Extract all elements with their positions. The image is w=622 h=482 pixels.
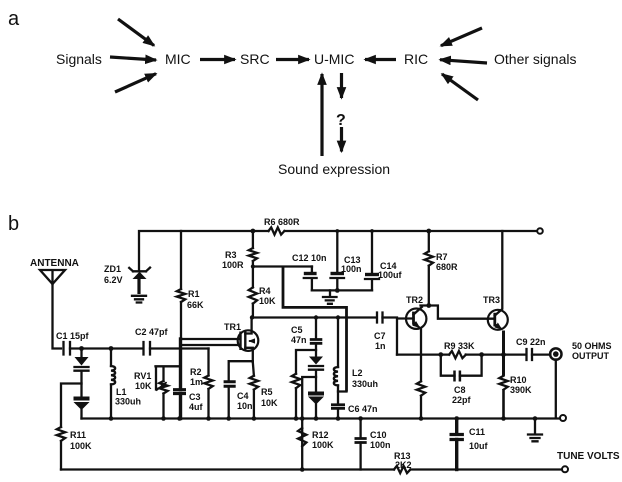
wire TR1 gate line 1 <box>181 338 241 340</box>
svg-text:R1: R1 <box>188 289 200 299</box>
wire thick gate node vertical <box>179 339 182 389</box>
wire arrow down question mark to Sound expression <box>340 127 343 152</box>
svg-text:10uf: 10uf <box>469 441 489 451</box>
wire varicap tap to R12 <box>302 377 316 470</box>
ground below decoupling caps <box>323 290 337 303</box>
resistor R1 <box>180 231 182 289</box>
node junction L1 top <box>109 346 114 351</box>
svg-text:6.2V: 6.2V <box>104 275 123 285</box>
svg-text:a: a <box>8 8 20 30</box>
wire arrow into MIC middle <box>110 57 156 60</box>
capacitor C2 <box>144 342 151 355</box>
svg-text:C5: C5 <box>291 325 303 335</box>
wire arrow MIC to SRC <box>200 58 235 61</box>
capacitor C9 <box>527 349 533 360</box>
svg-text:R6 680R: R6 680R <box>264 217 300 227</box>
capacitor C13 <box>336 231 338 272</box>
node junction C5 top <box>314 315 318 319</box>
inductor L1 <box>110 349 112 367</box>
svg-text:C6 47n: C6 47n <box>348 404 378 414</box>
antenna symbol <box>40 270 65 284</box>
wire arrow into RIC middle <box>440 60 487 63</box>
node rail junction R12 tap <box>300 416 305 421</box>
svg-text:L2: L2 <box>352 368 363 378</box>
wire TR3 emitter <box>502 331 505 376</box>
wire varicap chain lead <box>80 349 82 358</box>
resistor R3 <box>251 229 256 234</box>
wire TR2 emitter <box>420 330 422 382</box>
wire bias feed down to L2 bottom <box>283 267 347 392</box>
svg-text:C10: C10 <box>370 430 387 440</box>
svg-text:1m: 1m <box>190 377 203 387</box>
resistor R5 <box>253 362 254 376</box>
capacitor C7 <box>377 313 383 323</box>
transistor TR3 <box>488 310 508 330</box>
svg-text:66K: 66K <box>187 300 204 310</box>
svg-text:C3: C3 <box>189 392 201 402</box>
svg-text:ANTENNA: ANTENNA <box>30 258 79 269</box>
resistor TR2 emitter unlabeled <box>417 381 425 395</box>
svg-text:R10: R10 <box>510 375 527 385</box>
resistor R12 <box>298 428 306 446</box>
svg-text:100n: 100n <box>341 264 362 274</box>
svg-text:47n: 47n <box>291 335 307 345</box>
resistor R2 <box>207 349 209 376</box>
svg-text:SRC: SRC <box>240 51 270 67</box>
resistor R11 <box>57 427 65 441</box>
node rail junction R10 <box>501 416 506 421</box>
svg-text:100uf: 100uf <box>378 270 403 280</box>
wire ground rail <box>82 417 561 419</box>
wire arrow into RIC upper-right <box>441 28 482 46</box>
capacitor C12 <box>311 267 313 273</box>
wire top supply rail <box>139 231 537 270</box>
terminal tune volts circle <box>562 466 568 472</box>
svg-text:RIC: RIC <box>404 51 428 67</box>
wire arrow SRC to U-MIC <box>276 58 309 61</box>
svg-text:10K: 10K <box>259 296 276 306</box>
svg-text:R5: R5 <box>261 387 273 397</box>
svg-text:C7: C7 <box>374 331 386 341</box>
svg-text:10K: 10K <box>135 381 152 391</box>
connector 50 ohms output <box>550 348 561 359</box>
capacitor C3 <box>173 390 186 394</box>
wire output shell to ground rail <box>555 360 557 419</box>
node TR1 drain junction <box>250 315 254 319</box>
wire C7 to TR2 base and feedback tap <box>383 318 414 355</box>
wire arrow into RIC lower-right <box>442 74 478 100</box>
wire C9 to output <box>532 353 550 355</box>
svg-text:ZD1: ZD1 <box>104 264 121 274</box>
capacitor C1 <box>64 342 71 355</box>
capacitor C6 <box>337 392 339 404</box>
ground symbol right <box>528 419 542 442</box>
node junction R3-R4 <box>251 264 255 268</box>
svg-text:R3: R3 <box>225 250 237 260</box>
node rail junction L1 <box>109 416 114 421</box>
svg-text:C12 10n: C12 10n <box>292 253 327 263</box>
svg-text:TR2: TR2 <box>406 295 423 305</box>
capacitor C11 <box>455 419 458 434</box>
wire arrow down U-MIC to question mark <box>340 73 343 98</box>
node rail junction D4 <box>314 416 319 421</box>
svg-text:R4: R4 <box>259 286 271 296</box>
wire decoupling bottom bus <box>312 289 372 291</box>
node rail junction RV1 <box>161 416 166 421</box>
svg-text:RV1: RV1 <box>134 371 151 381</box>
varicap D3 <box>309 357 323 365</box>
resistor R9 <box>449 351 466 358</box>
svg-text:C8: C8 <box>454 385 466 395</box>
wire feedback line <box>397 353 526 355</box>
svg-text:Sound expression: Sound expression <box>278 161 390 177</box>
svg-text:R9 33K: R9 33K <box>444 341 475 351</box>
svg-text:TR1: TR1 <box>224 322 241 332</box>
svg-text:U-MIC: U-MIC <box>314 51 354 67</box>
node rail junction C10 <box>358 416 363 421</box>
wire TR2 collector link to TR3 base <box>421 306 495 319</box>
wire TR1 gate line 2 <box>181 344 241 346</box>
svg-text:10n: 10n <box>237 401 253 411</box>
svg-text:OUTPUT: OUTPUT <box>572 351 610 361</box>
wire C5 bottom branch to resistor <box>296 350 316 374</box>
node rail junction ground stub <box>533 416 538 421</box>
svg-text:330uh: 330uh <box>115 397 141 407</box>
resistor R8 unlabeled <box>292 374 300 388</box>
node junction L2 top <box>336 315 340 319</box>
node rail junction R5 <box>252 416 257 421</box>
svg-text:MIC: MIC <box>165 51 191 67</box>
node rail junction C13 <box>335 229 339 233</box>
node rail junction R2 <box>206 416 211 421</box>
resistor R13 <box>394 466 410 473</box>
svg-text:R12: R12 <box>312 430 329 440</box>
svg-text:100R: 100R <box>222 260 244 270</box>
svg-text:R7: R7 <box>436 252 448 262</box>
svg-text:10K: 10K <box>261 398 278 408</box>
wire tune volts line <box>61 468 562 470</box>
svg-text:C4: C4 <box>237 391 249 401</box>
wire tank line <box>70 347 209 349</box>
node junction C8 right <box>479 352 484 357</box>
svg-text:R2: R2 <box>190 367 202 377</box>
resistor R6 <box>269 227 285 234</box>
varicap D2 <box>74 397 90 401</box>
node rail junction R8 <box>294 416 299 421</box>
capacitor C8 <box>441 355 482 376</box>
node rail junction TR2 emitter <box>419 416 424 421</box>
wire arrow into MIC lower-left <box>115 74 156 92</box>
node junction TR3 emitter feedback <box>501 352 506 357</box>
svg-text:TUNE VOLTS: TUNE VOLTS <box>557 451 620 462</box>
node junction C13 bottom <box>335 288 340 293</box>
svg-text:390K: 390K <box>510 385 532 395</box>
svg-text:?: ? <box>336 112 346 129</box>
capacitor C4 <box>229 361 253 380</box>
wire tuning tap to R11 <box>61 384 82 428</box>
svg-text:4uf: 4uf <box>189 402 204 412</box>
svg-text:C11: C11 <box>469 427 485 437</box>
svg-text:330uh: 330uh <box>352 379 378 389</box>
wire TR1 drain line <box>252 316 377 318</box>
wire arrow into MIC upper-left <box>118 19 154 46</box>
ground below ZD1 <box>132 296 146 303</box>
svg-text:C9 22n: C9 22n <box>516 337 546 347</box>
node rail junction C3 <box>177 416 182 421</box>
zener ZD1 <box>129 268 150 272</box>
resistor R10 <box>499 376 507 390</box>
varicap D4 <box>308 392 324 396</box>
svg-text:2K2: 2K2 <box>395 460 412 470</box>
svg-text:Other signals: Other signals <box>494 51 576 67</box>
svg-text:100K: 100K <box>70 441 92 451</box>
capacitor C14 <box>371 231 373 273</box>
inductor L2 <box>337 318 339 368</box>
svg-text:L1: L1 <box>116 387 127 397</box>
node rail junction C11 <box>454 416 459 421</box>
transistor TR1 <box>238 330 259 351</box>
capacitor C5 <box>315 318 317 339</box>
terminal ground rail circle <box>560 415 566 421</box>
svg-text:C2 47pf: C2 47pf <box>135 327 169 337</box>
varicap D1 <box>75 357 89 366</box>
preset RV1 <box>156 366 181 389</box>
node rail junction C14 <box>370 229 374 233</box>
svg-text:TR3: TR3 <box>483 295 500 305</box>
svg-text:Signals: Signals <box>56 51 102 67</box>
node junction R7 bottom <box>426 303 431 308</box>
svg-text:C1 15pf: C1 15pf <box>56 331 90 341</box>
node rail junction C4 <box>226 416 231 421</box>
wire antenna stem <box>53 284 62 349</box>
svg-text:100n: 100n <box>370 440 391 450</box>
node junction varicap top <box>79 346 84 351</box>
svg-text:22pf: 22pf <box>452 395 472 405</box>
wire arrow RIC to U-MIC <box>365 58 396 61</box>
resistor R4 <box>252 267 254 288</box>
svg-text:680R: 680R <box>436 262 458 272</box>
svg-text:50 OHMS: 50 OHMS <box>572 341 612 351</box>
capacitor C10 <box>359 419 361 438</box>
node rail junction C6 <box>336 416 341 421</box>
svg-text:R11: R11 <box>70 430 86 440</box>
svg-text:1n: 1n <box>375 341 386 351</box>
terminal supply input circle <box>537 228 543 234</box>
transistor TR2 <box>406 309 426 329</box>
resistor R7 <box>426 229 431 234</box>
node junction C8 left <box>438 352 443 357</box>
svg-text:100K: 100K <box>312 440 334 450</box>
svg-text:b: b <box>8 213 19 235</box>
node junction R12 bottom <box>300 467 305 472</box>
wire bias line R3-R4 junction <box>253 265 312 267</box>
wire arrow up from Sound expression to U-MIC <box>320 74 323 156</box>
